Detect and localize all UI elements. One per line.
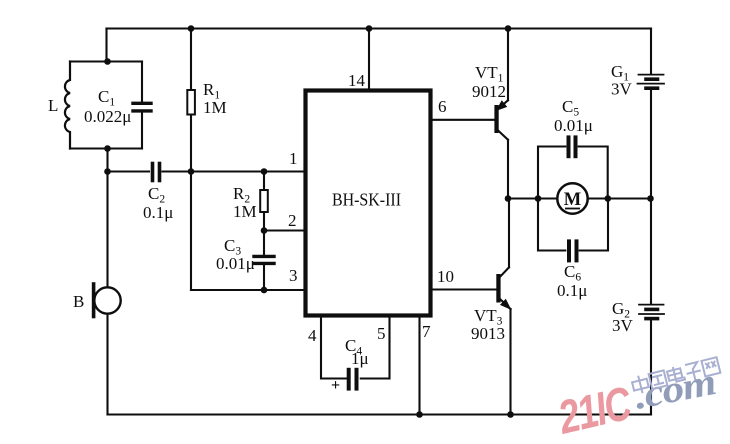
- watermark .com: [631, 361, 719, 418]
- wire pin3 row: [191, 289, 305, 291]
- motor M: [557, 183, 587, 213]
- junction bottom rail at VT3 emitter: [507, 411, 514, 418]
- svg-text:1μ: 1μ: [351, 349, 369, 368]
- svg-text:9012: 9012: [472, 82, 506, 101]
- svg-text:7: 7: [422, 322, 431, 341]
- junction motor row left frame: [535, 195, 542, 202]
- wire bottom rail: [108, 413, 652, 415]
- junction bottom rail at pin7: [416, 411, 423, 418]
- junction R1 line at input row: [188, 168, 195, 175]
- watermark 21IC: [553, 376, 637, 444]
- svg-text:1: 1: [289, 149, 298, 168]
- capacitor C3: [254, 231, 274, 291]
- transistor VT1 9012: [494, 100, 508, 140]
- svg-text:+: +: [331, 377, 340, 394]
- capacitor C2: [108, 164, 306, 181]
- wire pin 14: [368, 29, 370, 89]
- wire tank bottom edge: [70, 147, 142, 149]
- inductor L: [65, 62, 70, 149]
- battery G1: [638, 75, 665, 89]
- svg-text:9013: 9013: [471, 324, 505, 343]
- wire VT1 collector down to motor row: [507, 140, 509, 199]
- wire pin 4: [321, 317, 346, 379]
- battery G2: [639, 305, 664, 319]
- junction tank top: [104, 58, 111, 65]
- resistor R2: [260, 172, 268, 231]
- svg-text:4: 4: [308, 326, 317, 345]
- svg-text:B: B: [73, 292, 84, 311]
- svg-text:1M: 1M: [203, 98, 227, 117]
- svg-text:0.1μ: 0.1μ: [557, 281, 587, 300]
- junction R2 top at input row: [261, 168, 268, 175]
- wire VT1 emitter to top rail: [507, 29, 509, 101]
- junction top rail at pin14: [366, 25, 373, 32]
- svg-text:BH-SK-III: BH-SK-III: [332, 190, 401, 210]
- svg-text:5: 5: [377, 324, 386, 343]
- glyph zi: [684, 362, 702, 382]
- junction tank bottom: [104, 145, 111, 152]
- junction R2 bottom pin2 row: [261, 227, 268, 234]
- wire motor row right: [588, 197, 651, 199]
- glyph guo: [649, 370, 668, 389]
- wire VT3 emitter to bottom rail: [509, 309, 511, 415]
- capacitor C6 frame: [538, 199, 608, 261]
- svg-text:M: M: [564, 190, 581, 210]
- glyph wang: [701, 357, 720, 376]
- wire pin 5: [361, 317, 390, 379]
- junction motor row at VT collectors: [505, 195, 512, 202]
- wire right rail to G1: [650, 29, 652, 74]
- wire top positive rail: [107, 27, 652, 29]
- svg-text:10: 10: [437, 267, 454, 286]
- junction top rail at VT1 emitter: [505, 25, 512, 32]
- svg-text:6: 6: [438, 97, 447, 116]
- svg-text:3V: 3V: [612, 316, 634, 335]
- wire pin 7: [418, 317, 420, 415]
- wire pin 10: [431, 288, 496, 290]
- svg-text:2: 2: [288, 211, 297, 230]
- svg-text:0.022μ: 0.022μ: [84, 107, 131, 126]
- capacitor C1: [133, 62, 151, 149]
- wire mic to bottom rail: [106, 314, 108, 415]
- transistor VT3 9013: [496, 267, 510, 309]
- microphone B: [94, 284, 121, 317]
- wire VT3 collector up to motor row: [508, 199, 510, 268]
- svg-text:3V: 3V: [611, 80, 633, 99]
- wire G2 to bottom rail: [650, 320, 652, 415]
- wire pin 6: [431, 119, 495, 121]
- junction mic node at C2: [104, 168, 111, 175]
- svg-text:14: 14: [348, 71, 366, 90]
- junction top rail at R1: [188, 25, 195, 32]
- capacitor C4: [349, 370, 357, 389]
- wire tank top edge: [70, 60, 142, 62]
- wire top-left drop to tank: [105, 29, 107, 62]
- wire pin2 row: [264, 229, 305, 231]
- svg-text:3: 3: [289, 266, 298, 285]
- wire motor row left: [508, 197, 557, 199]
- capacitor C5 frame: [538, 137, 608, 198]
- junction motor row right frame: [605, 195, 612, 202]
- svg-text:0.1μ: 0.1μ: [143, 203, 173, 222]
- glyph dian: [666, 365, 685, 383]
- resistor R1: [187, 29, 195, 291]
- watermark chinese characters zhongguo dianziwang: [631, 356, 721, 395]
- svg-text:L: L: [48, 96, 58, 115]
- junction C3 bottom pin3 row: [261, 287, 268, 294]
- glyph zhong: [631, 374, 650, 395]
- svg-text:0.01μ: 0.01μ: [554, 116, 593, 135]
- wire G1 to motor row junction and on to G2: [650, 90, 652, 304]
- svg-text:0.01μ: 0.01μ: [216, 254, 255, 273]
- wire tank bottom down to mic node: [106, 149, 108, 288]
- junction motor row at battery rail: [647, 195, 654, 202]
- svg-text:1M: 1M: [233, 202, 257, 221]
- IC U1 BH-SK-III box: [306, 91, 431, 316]
